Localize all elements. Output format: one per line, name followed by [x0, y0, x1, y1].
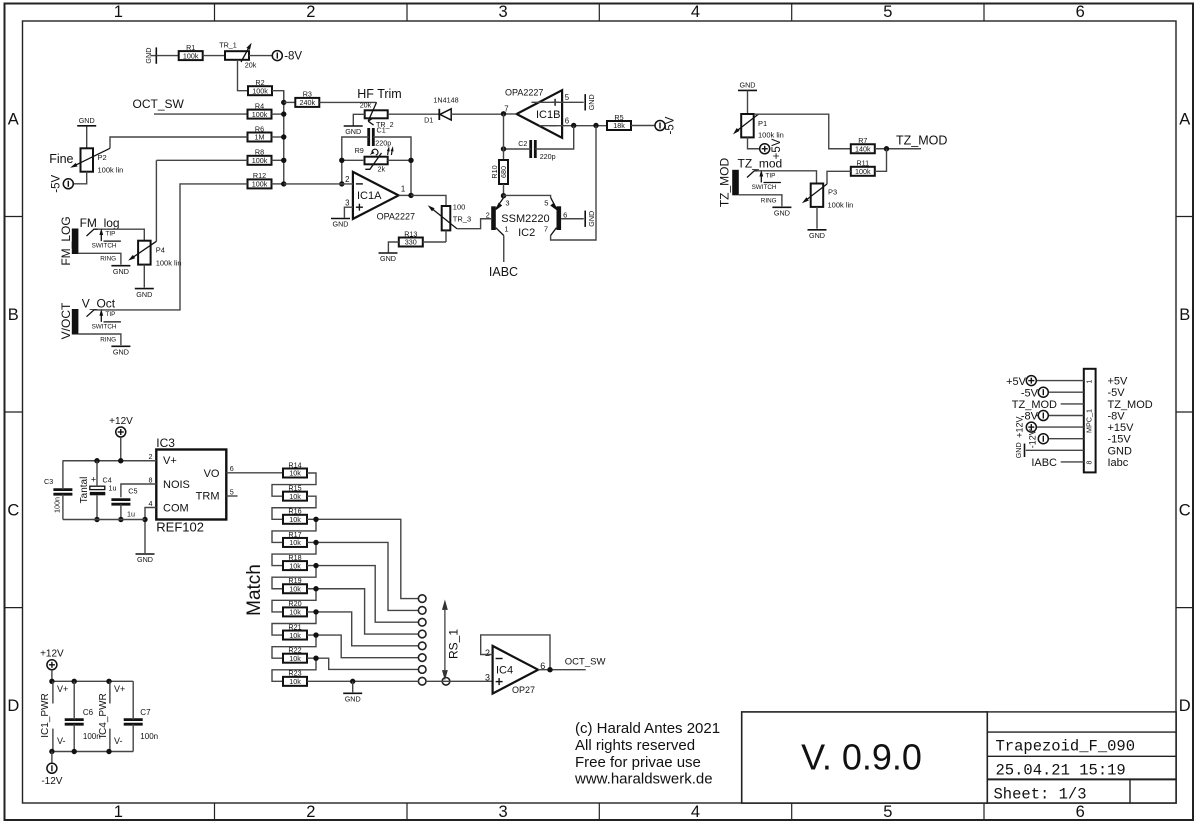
svg-text:+: +: [91, 475, 96, 485]
svg-text:6: 6: [1076, 803, 1085, 821]
ground symbol R13: [379, 252, 398, 254]
svg-text:OP27: OP27: [512, 685, 535, 695]
svg-text:TR_1: TR_1: [219, 41, 237, 50]
connector MPC_1 pin wire -15V: [1048, 438, 1084, 440]
wire pin7 apex: [504, 113, 517, 115]
wire R10 bottom: [503, 184, 505, 196]
wire R13 right: [423, 241, 446, 243]
wire R7 right / net TZ_MOD: [875, 148, 921, 150]
svg-text:C: C: [7, 502, 19, 520]
potentiometer P2 100k lin: [81, 148, 94, 171]
junction bus R8: [281, 158, 286, 163]
wire bottom rail: [63, 519, 145, 521]
svg-text:+5V: +5V: [1108, 376, 1129, 388]
svg-text:RING: RING: [100, 336, 116, 343]
wire C4: [96, 461, 98, 486]
svg-text:10k: 10k: [289, 608, 301, 617]
wire tap R22 to terminal: [316, 658, 419, 669]
svg-text:NOIS: NOIS: [163, 479, 190, 491]
resistor R17 10k: [283, 538, 307, 547]
svg-text:2: 2: [345, 175, 349, 184]
wire IC4 output: [538, 669, 586, 671]
svg-text:TR_3: TR_3: [453, 215, 471, 224]
capacitor C1 220p: [367, 128, 370, 146]
svg-text:COM: COM: [163, 503, 189, 515]
wire TR_1 wiper to R2: [238, 60, 249, 91]
svg-text:TZ_mod: TZ_mod: [738, 157, 783, 171]
svg-text:GND: GND: [113, 348, 129, 357]
svg-text:25.04.21 15:19: 25.04.21 15:19: [996, 762, 1126, 780]
svg-text:OPA2227: OPA2227: [505, 88, 543, 98]
op-amp IC4 OP27: [493, 646, 538, 694]
svg-text:C2: C2: [518, 139, 527, 148]
svg-text:10k: 10k: [289, 469, 301, 478]
terminal pin RS_1: [418, 607, 426, 615]
svg-text:SWITCH: SWITCH: [92, 243, 117, 250]
wire P1 bottom to +5V: [748, 137, 760, 148]
svg-text:5: 5: [883, 803, 892, 821]
svg-text:10k: 10k: [289, 677, 301, 686]
svg-text:100n: 100n: [52, 497, 61, 513]
svg-text:Free for privae use: Free for privae use: [575, 754, 701, 771]
wire tap R16 to terminal: [316, 519, 419, 598]
svg-text:5: 5: [544, 199, 548, 208]
svg-text:1: 1: [114, 803, 123, 821]
svg-text:8: 8: [1087, 460, 1094, 464]
svg-text:10k: 10k: [289, 631, 301, 640]
resistor R14 10k: [283, 469, 307, 478]
connector MPC_1 pin wire -8V: [1036, 415, 1084, 417]
wire R9 left: [342, 159, 364, 161]
svg-text:C3: C3: [44, 477, 53, 486]
svg-text:-12V: -12V: [41, 776, 62, 787]
svg-text:TIP: TIP: [106, 311, 116, 318]
wire P2 wiper to R6 row: [110, 137, 248, 148]
svg-text:D1: D1: [424, 116, 433, 125]
wire P3 bottom to ground: [816, 207, 818, 229]
wire ladder step: [272, 496, 316, 519]
terminal pin RS_1: [418, 666, 426, 674]
power symbol -12V at MPC pin6: [1038, 434, 1048, 444]
wire IC1A out to TR_3: [411, 195, 446, 206]
svg-text:RS_1: RS_1: [447, 629, 461, 659]
svg-text:GND: GND: [136, 290, 152, 299]
svg-text:240k: 240k: [300, 98, 316, 107]
svg-text:V-: V-: [114, 736, 123, 746]
svg-text:Tantal: Tantal: [79, 477, 90, 504]
svg-text:GND: GND: [113, 267, 129, 276]
wire tap R18 to terminal: [316, 566, 419, 623]
svg-text:3: 3: [499, 3, 508, 21]
svg-text:10k: 10k: [289, 515, 301, 524]
resistor R2: [248, 86, 272, 95]
svg-text:10k: 10k: [289, 561, 301, 570]
svg-text:5: 5: [883, 3, 892, 21]
svg-text:V+: V+: [57, 684, 68, 694]
wire IC3 pin2 V+ rail: [63, 460, 157, 462]
svg-text:GND: GND: [345, 695, 361, 704]
svg-text:B: B: [1179, 306, 1190, 324]
junction pin6 C2: [571, 123, 576, 128]
svg-text:330: 330: [405, 238, 417, 247]
svg-text:+5V: +5V: [1006, 376, 1027, 388]
diode D1 1N4148: [440, 109, 451, 120]
svg-text:1: 1: [401, 185, 405, 194]
terminal pin RS_1: [418, 618, 426, 626]
svg-text:3: 3: [499, 803, 508, 821]
resistor R5 18k: [607, 121, 631, 130]
wire C1 right: [373, 137, 411, 195]
svg-text:4: 4: [149, 499, 153, 508]
svg-text:V+: V+: [114, 684, 125, 694]
power symbol -5V: [655, 121, 665, 131]
wire tip to R12 row: [98, 184, 248, 310]
op-amp IC1A OPA2227: [353, 172, 399, 219]
svg-text:HF Trim: HF Trim: [357, 87, 401, 101]
svg-text:FM_LOG: FM_LOG: [59, 216, 73, 265]
svg-text:2: 2: [149, 452, 153, 461]
svg-text:P2: P2: [98, 153, 107, 162]
svg-text:220p: 220p: [540, 152, 556, 161]
wire IC4 feedback loop: [481, 635, 550, 670]
junction brail IC4: [106, 749, 111, 754]
resistor R7 140k: [851, 144, 875, 153]
wire R23 to terminal: [307, 680, 419, 682]
wire bottom rail: [52, 751, 133, 753]
wire C3: [62, 461, 64, 490]
wire tap R20 to terminal: [316, 612, 419, 646]
svg-text:GND: GND: [774, 209, 790, 218]
transistor pair SSM2220 IC2 left half: [491, 206, 496, 230]
svg-text:P4: P4: [156, 246, 165, 255]
op-amp IC1B OPA2227: [517, 90, 563, 138]
resistor R1: [179, 51, 203, 60]
svg-text:Match: Match: [244, 564, 265, 616]
svg-text:TZ_MOD: TZ_MOD: [1012, 399, 1057, 411]
wire R5 right to -5V: [631, 125, 655, 127]
svg-text:100n: 100n: [83, 732, 101, 741]
svg-text:GND: GND: [380, 254, 396, 263]
junction R9 left: [339, 158, 344, 163]
junction tap R22: [313, 656, 318, 661]
version box: [742, 712, 988, 803]
svg-text:GND: GND: [333, 220, 349, 229]
power symbol -8V: [272, 51, 282, 61]
wire ladder step: [272, 519, 316, 542]
wire ladder step: [272, 589, 316, 612]
ground symbol IC2 base: [584, 211, 586, 227]
svg-text:Sheet: 1/3: Sheet: 1/3: [994, 785, 1087, 803]
wire pin3 to ground: [344, 207, 353, 218]
ground symbol FM_LOG ring: [111, 265, 130, 267]
svg-text:(c) Harald Antes 2021: (c) Harald Antes 2021: [575, 720, 720, 737]
wire IC3 pin6 VO to R14: [226, 472, 283, 474]
resistor R23 10k: [283, 677, 307, 686]
resistor R4: [248, 110, 272, 119]
svg-text:100k lin: 100k lin: [758, 131, 784, 140]
svg-text:TRM: TRM: [196, 491, 220, 503]
svg-text:VO: VO: [204, 468, 220, 480]
wire terminal to IC4 pin3: [426, 680, 493, 682]
svg-text:1: 1: [504, 224, 508, 233]
power symbol -5V at P2: [63, 179, 73, 189]
ground symbol P3: [808, 229, 827, 231]
wire P4 bottom to ground: [143, 265, 145, 288]
svg-text:OCT_SW: OCT_SW: [133, 97, 185, 111]
svg-text:TZ_MOD: TZ_MOD: [718, 158, 732, 208]
connector MPC_1 pin wire TZ_MOD: [1061, 403, 1084, 405]
wire R9 right: [387, 159, 411, 161]
wire IC2 right base to ground: [561, 218, 584, 220]
junction tap R20: [313, 609, 318, 614]
ground symbol IC1A pin3: [331, 218, 350, 220]
svg-text:+15V: +15V: [1108, 422, 1135, 434]
svg-text:SWITCH: SWITCH: [92, 323, 117, 330]
power symbol +5V at MPC pin1: [1026, 376, 1036, 386]
wire tip to P4 top: [98, 229, 145, 241]
power symbol -8V at MPC pin4: [1038, 411, 1048, 421]
wire R11 left to P3 wiper: [827, 171, 851, 184]
svg-text:R10: R10: [490, 165, 499, 178]
trimmer R9 2k: [365, 157, 388, 165]
ground symbol TR_2: [344, 125, 363, 127]
svg-text:7: 7: [544, 224, 548, 233]
wire R13 left to ground: [388, 242, 398, 252]
svg-text:GND: GND: [1014, 442, 1023, 458]
svg-text:10k: 10k: [289, 538, 301, 547]
svg-text:V-: V-: [57, 736, 66, 746]
svg-text:R9: R9: [355, 146, 364, 155]
svg-text:3: 3: [485, 673, 490, 683]
terminal pin RS_1: [418, 654, 426, 662]
capacitor C4 1u tantal polarized: [90, 486, 105, 489]
svg-text:100k: 100k: [855, 167, 871, 176]
svg-text:GND: GND: [137, 555, 153, 564]
title block: [987, 712, 1176, 803]
wire: [203, 55, 225, 57]
capacitor C2 220p: [529, 140, 532, 158]
svg-text:4: 4: [691, 3, 700, 21]
jack V/OCT tip contact: [87, 310, 98, 317]
junction R10 collector: [501, 193, 506, 198]
stub IC3 pin5 TRM: [226, 495, 237, 497]
svg-text:6: 6: [565, 116, 569, 125]
wire TR_3 wiper to IC2 base: [457, 219, 491, 229]
svg-text:P1: P1: [758, 119, 767, 128]
svg-text:TZ_MOD: TZ_MOD: [896, 134, 947, 148]
jack TZ_MOD body: [732, 170, 739, 196]
wire IC2 right emitter to R5 node: [551, 126, 596, 240]
svg-text:GND: GND: [809, 231, 825, 240]
wire C2 right to pin6: [535, 126, 573, 149]
svg-text:C7: C7: [140, 708, 151, 717]
potentiometer P4 100k lin: [138, 241, 151, 265]
wire D1 to IC1B pin7: [451, 113, 503, 115]
svg-text:FM_log: FM_log: [80, 216, 120, 230]
trimmer TR_3 100 vertical: [442, 206, 451, 230]
wire tap R17 to terminal: [316, 542, 419, 610]
svg-text:IC1B: IC1B: [536, 109, 560, 121]
ground symbol below P4: [135, 288, 154, 290]
svg-text:IABC: IABC: [489, 265, 518, 279]
wire: [156, 55, 179, 57]
resistor R6: [248, 133, 272, 142]
svg-text:All rights reserved: All rights reserved: [575, 737, 695, 754]
wire pin2: [284, 183, 353, 185]
jack FM_LOG tip contact: [87, 229, 98, 236]
wire OCT_SW to R4: [154, 113, 248, 115]
svg-text:1u: 1u: [127, 510, 135, 519]
junction bus R3: [281, 100, 286, 105]
terminal pin RS_1: [418, 677, 426, 685]
svg-text:C: C: [1179, 502, 1191, 520]
junction TZ_MOD: [884, 146, 889, 151]
connector MPC_1 pin wire -5V: [1048, 391, 1084, 393]
svg-text:Trapezoid_F_090: Trapezoid_F_090: [996, 738, 1136, 756]
svg-text:2: 2: [485, 648, 490, 658]
svg-text:20k: 20k: [360, 101, 372, 110]
svg-text:18k: 18k: [613, 121, 625, 130]
resistor R18 10k: [283, 561, 307, 570]
wire ladder step: [272, 542, 316, 565]
wire R8 right: [272, 159, 284, 161]
junction tap R19: [313, 586, 318, 591]
svg-text:MPC_1: MPC_1: [1085, 409, 1094, 433]
svg-text:6: 6: [230, 464, 234, 473]
jack TZ_MOD ring wire: [739, 195, 782, 206]
wire IC2 left emitter IABC: [503, 236, 505, 263]
wire R11 right up to junction: [875, 149, 887, 172]
jack V/OCT body: [72, 309, 79, 335]
svg-text:100k lin: 100k lin: [828, 200, 854, 209]
junction IC1A output: [408, 193, 413, 198]
svg-text:100k: 100k: [252, 180, 268, 189]
wire bus vertical: [283, 91, 285, 184]
connector MPC_1 pin wire +15V: [1036, 426, 1084, 428]
svg-text:6: 6: [1076, 3, 1085, 21]
wire C2 left: [504, 148, 531, 150]
capacitor C7 100n: [124, 718, 143, 721]
resistor R20 10k: [283, 607, 307, 616]
svg-text:GND: GND: [79, 116, 95, 125]
svg-text:140k: 140k: [855, 144, 871, 153]
wire P2 bottom to -5V: [74, 172, 87, 184]
junction COM: [142, 517, 147, 522]
junction rail IC4_PWR: [106, 679, 111, 684]
resistor R15 10k: [283, 492, 307, 501]
svg-text:1: 1: [1087, 379, 1094, 383]
svg-text:V/OCT: V/OCT: [59, 302, 73, 339]
trimmer TR_1 20k: [225, 51, 249, 60]
measure arrow RS_1: [444, 607, 446, 673]
resistor R19 10k: [283, 584, 307, 593]
potentiometer P1 100k lin: [741, 114, 754, 137]
svg-text:RING: RING: [761, 198, 777, 205]
junction tap R18: [313, 563, 318, 568]
wire ladder step: [272, 658, 316, 681]
junction brail IC1: [49, 749, 54, 754]
terminal pin RS_1: [418, 630, 426, 638]
resistor R13 330: [399, 238, 423, 247]
capacitor C5 1u: [111, 498, 130, 501]
resistor R3: [295, 98, 319, 107]
svg-text:IC1A: IC1A: [357, 190, 382, 202]
wire R3 to TR_2 wiper: [319, 101, 376, 103]
wire top rail: [52, 680, 133, 682]
junction bus R4: [281, 111, 286, 116]
svg-text:IC2: IC2: [518, 227, 535, 239]
power symbol +12V at MPC pin5: [1026, 422, 1036, 432]
svg-text:RING: RING: [100, 256, 116, 263]
junction bus R12: [281, 181, 286, 186]
svg-text:1M: 1M: [255, 133, 265, 142]
svg-text:2k: 2k: [378, 165, 386, 174]
svg-text:D: D: [1179, 697, 1191, 715]
svg-text:P3: P3: [828, 188, 837, 197]
svg-text:Iabc: Iabc: [1108, 457, 1129, 469]
wire C5 bottom: [120, 504, 122, 519]
svg-text:C5: C5: [128, 487, 137, 496]
wire: [272, 91, 284, 103]
IC1_PWR symbol: [52, 681, 54, 703]
junction tap R21: [313, 632, 318, 637]
svg-text:680: 680: [499, 166, 508, 178]
resistor R12: [248, 179, 272, 188]
svg-text:Fine: Fine: [49, 152, 73, 166]
junction rail IC1_PWR: [49, 679, 54, 684]
wire P4 wiper to R8 row: [155, 160, 157, 241]
connector MPC_1: [1084, 369, 1096, 473]
resistor R16 10k: [283, 515, 307, 524]
svg-text:-5V: -5V: [664, 116, 676, 134]
junction brail C6: [72, 749, 77, 754]
ground symbol at R1: [150, 55, 156, 57]
svg-text:10k: 10k: [289, 654, 301, 663]
wire IC2 collectors top: [504, 195, 551, 197]
IC REF102 IC3 body: [156, 450, 226, 520]
svg-text:D: D: [7, 697, 19, 715]
svg-text:-12V: -12V: [1027, 429, 1037, 448]
svg-text:IC3: IC3: [156, 436, 175, 450]
svg-text:SSM2220: SSM2220: [501, 213, 549, 225]
svg-text:1: 1: [114, 3, 123, 21]
transistor pair SSM2220 IC2 right half: [557, 206, 562, 230]
jack V/OCT ring wire: [78, 334, 121, 345]
potentiometer P3 100k lin: [811, 184, 824, 207]
svg-text:GND: GND: [144, 48, 153, 64]
svg-text:-15V: -15V: [1108, 434, 1132, 446]
resistor R22 10k: [283, 654, 307, 663]
power symbol -12V: [47, 763, 57, 773]
wire P1 wiper to R7: [754, 114, 851, 149]
svg-text:A: A: [1179, 111, 1190, 129]
junction tap R17: [313, 540, 318, 545]
ground symbol R23: [352, 681, 354, 692]
svg-text:-5V: -5V: [1108, 387, 1126, 399]
junction +12V: [118, 458, 123, 463]
wire pin7 down: [503, 114, 505, 160]
jack FM_LOG switch: [104, 240, 121, 242]
svg-text:-5V: -5V: [50, 175, 62, 193]
wire bus to R3: [284, 101, 296, 103]
svg-text:V_Oct: V_Oct: [82, 297, 116, 311]
jack TZ_MOD switch: [764, 182, 781, 184]
ground symbol IC1B pin5: [584, 94, 586, 110]
terminal pin RS_1: [418, 642, 426, 650]
wire +12V to rail: [51, 670, 53, 682]
junction feedback pin2: [339, 181, 344, 186]
wire R12 right: [272, 183, 284, 185]
